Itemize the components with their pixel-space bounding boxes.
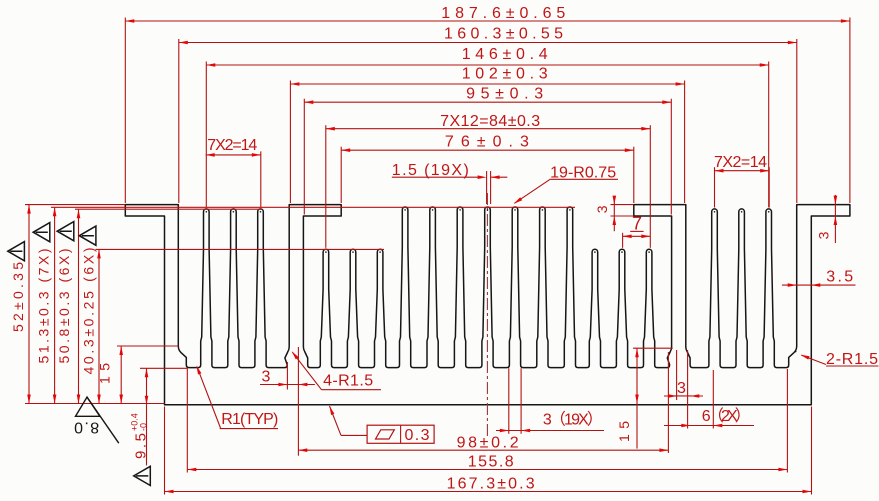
svg-text:50.8±0.3 (6X): 50.8±0.3 (6X) — [56, 249, 72, 364]
ext 3 right-a — [676, 350, 678, 400]
ext 160.3 R — [796, 39, 798, 203]
svg-text:1.5 (19X): 1.5 (19X) — [392, 162, 469, 179]
ext 7 L — [622, 233, 624, 248]
ext 167.3 R — [811, 407, 813, 495]
svg-text:4-R1.5: 4-R1.5 — [323, 372, 373, 389]
dimension 7X12=84+-0.3 — [326, 128, 651, 130]
ext 3(19X) b — [520, 368, 522, 434]
ext line 15 left step — [117, 345, 178, 347]
svg-text:155.8: 155.8 — [468, 454, 514, 471]
dimension 6 (2X) — [664, 425, 754, 427]
svg-text:7X2=14: 7X2=14 — [714, 154, 767, 171]
ext 76 R — [633, 147, 635, 203]
ext line 52 top — [25, 204, 125, 206]
flatness leader — [330, 406, 342, 435]
ext 7X2=14 R1 — [714, 167, 716, 207]
dimension 95+-0.3 — [304, 101, 671, 103]
ext 98 R — [667, 352, 669, 453]
ext 155.8 L — [186, 369, 188, 473]
ext 7X2=14 L — [260, 151, 262, 207]
ext 102 R — [684, 81, 686, 204]
svg-text:R1(TYP): R1(TYP) — [221, 411, 278, 428]
dimension 167.3+-0.3 — [165, 491, 812, 493]
dimension 7 short fin pitch — [623, 235, 651, 237]
ext line 3 flange bottom — [611, 215, 634, 217]
datum triangle at 40.3 dim — [79, 226, 96, 245]
svg-text:3: 3 — [816, 231, 832, 239]
svg-text:7X2=14: 7X2=14 — [207, 137, 257, 154]
dimension 15 left step height — [120, 346, 122, 404]
ext 146 R — [768, 62, 770, 208]
surface roughness symbol 0.8 on base bottom — [76, 397, 100, 416]
dimension 155.8 — [187, 469, 787, 471]
ext 3(19X) a — [508, 368, 510, 434]
svg-text:6（2X）: 6（2X） — [702, 407, 751, 425]
ext line base bottom left — [25, 403, 165, 405]
heatsink profile — [125, 205, 850, 405]
svg-text:-0: -0 — [139, 423, 149, 431]
dimension 7X2=14 right fin group — [715, 170, 770, 172]
underline 7 — [630, 230, 643, 232]
ext 1.5 R — [490, 171, 492, 204]
ext 102 L — [289, 81, 291, 204]
datum triangle at 52 dim — [8, 242, 25, 261]
ext 3 left-a — [286, 362, 288, 390]
ext line 3 flange top — [611, 204, 634, 206]
svg-text:51.3±0.3 (7X): 51.3±0.3 (7X) — [36, 249, 52, 364]
dimension 102+-0.3 — [290, 83, 684, 85]
ext line 40.3 top — [96, 248, 385, 250]
dimension 3 right wall root — [664, 395, 703, 397]
dimension 3 (19X) fin root thickness — [496, 430, 604, 432]
ext 155.8 R — [786, 369, 788, 473]
dimension 98+-0.2 — [298, 449, 668, 451]
ext 6(2X) — [712, 370, 714, 429]
text 9.5 +0.4/-0 — [130, 413, 150, 459]
dimension 9.5 base thickness — [146, 368, 148, 465]
ext 3 left-b / 98 L — [297, 347, 299, 456]
datum triangle at 50.8 dim — [57, 222, 74, 241]
dimension 146+-0.4 — [206, 64, 768, 66]
svg-text:3: 3 — [677, 380, 686, 397]
ext line 9.5 floor — [140, 367, 188, 369]
ext 1.5 L — [486, 171, 488, 204]
ext 95 R — [670, 99, 672, 215]
svg-text:3: 3 — [262, 369, 271, 386]
ext line 51.3 top — [51, 206, 575, 208]
vertical centerline — [486, 193, 488, 438]
ext 146 L — [205, 62, 207, 208]
ext 187.6 R — [849, 18, 851, 204]
dimension 76+-0.3 — [341, 149, 634, 151]
ext 167.3 L — [164, 407, 166, 495]
svg-text:0.3: 0.3 — [405, 427, 430, 444]
ext 3 right-b — [687, 350, 689, 429]
ext 84 L — [325, 125, 327, 248]
svg-text:3: 3 — [594, 205, 610, 213]
datum triangle at 51.3 dim — [33, 223, 50, 242]
svg-text:3.5: 3.5 — [826, 269, 853, 286]
ext 160.3 L — [178, 39, 180, 203]
dimension 51.3+-0.3 (7X) — [54, 207, 56, 403]
svg-text:167.3±0.3: 167.3±0.3 — [447, 476, 535, 493]
dimension 160.3+-0.55 — [179, 42, 797, 44]
dimension 7X2=14 left fin group — [206, 154, 261, 156]
dimension 40.3+-0.25 (6X) — [98, 249, 100, 403]
dimension 50.8+-0.3 (6X) — [78, 209, 80, 403]
svg-text:9.5: 9.5 — [133, 433, 150, 459]
ext 84 R — [649, 125, 651, 248]
ext 7X2=14 R2 — [768, 167, 770, 207]
svg-text:8.0: 8.0 — [74, 418, 99, 435]
dimension 3 left wall root — [260, 384, 315, 386]
dimension 3.5 wall thickness — [782, 284, 856, 286]
dimension 52+-0.35 height — [28, 205, 30, 404]
flatness tolerance frame 0.3 — [367, 425, 434, 443]
ext line 15 right — [633, 347, 673, 349]
fin tip radius center marks — [206, 211, 208, 213]
dimension 3 right flange thickness — [834, 195, 836, 243]
ext 187.6 L — [124, 18, 126, 204]
dimension 15 right — [636, 348, 638, 448]
svg-text:3（19X）: 3（19X） — [543, 411, 603, 429]
svg-text:7: 7 — [632, 213, 642, 233]
ext line 50.8 top — [75, 208, 262, 210]
datum triangle at 9.5 dim — [134, 466, 151, 485]
svg-text:7X12=84±0.3: 7X12=84±0.3 — [440, 113, 540, 130]
ext 95 L — [303, 99, 305, 215]
dimension 187.6+-0.65 overall width — [125, 20, 850, 22]
ext 76 L — [340, 147, 342, 203]
dimension 3 hat flange thickness — [613, 196, 615, 231]
